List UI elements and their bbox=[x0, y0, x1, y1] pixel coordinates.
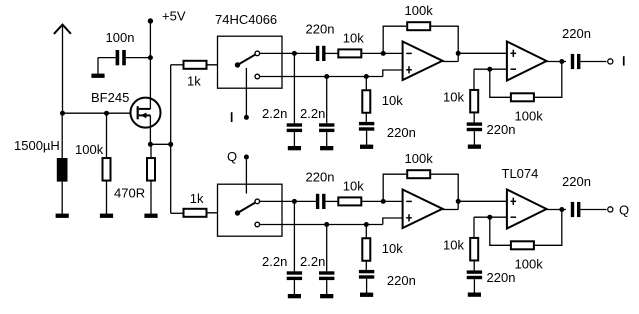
ground under second stage (Q) bbox=[468, 293, 481, 297]
wire second stage inverting input (Q) bbox=[474, 216, 507, 218]
node inverting input junction (Q) bbox=[381, 199, 386, 204]
svg-text:2.2n: 2.2n bbox=[300, 254, 325, 269]
svg-text:10k: 10k bbox=[343, 179, 364, 194]
node input bus junction bbox=[168, 142, 173, 147]
svg-text:10k: 10k bbox=[443, 90, 464, 105]
feedback resistor 100k first stage (Q) bbox=[383, 174, 406, 201]
wire first stage output (I) bbox=[443, 61, 459, 63]
wire first stage output (Q) bbox=[443, 209, 459, 211]
ground under shunt (Q) bbox=[360, 293, 373, 297]
svg-text:Q: Q bbox=[227, 149, 237, 164]
resistor R 1k (I mixer input) bbox=[184, 61, 207, 69]
wire interstage (I) bbox=[458, 52, 507, 54]
capacitor 220n under 10k (I) bbox=[467, 122, 482, 125]
resistor 470R source bbox=[150, 144, 152, 157]
svg-text:Q: Q bbox=[619, 203, 629, 218]
capacitor 220n output (I) bbox=[571, 54, 574, 69]
terminal I output bbox=[608, 59, 613, 64]
svg-text:10k: 10k bbox=[382, 93, 403, 108]
capacitor 2.2n second (I) bbox=[326, 77, 328, 124]
capacitor 2.2n first (I) bbox=[293, 53, 295, 123]
node source junction bbox=[148, 142, 153, 147]
switch box 74HC4066 (I) bbox=[218, 36, 283, 88]
svg-text:1500µH: 1500µH bbox=[14, 138, 60, 153]
analog switch (I) bbox=[235, 62, 240, 67]
switch box 74HC4066 (Q) bbox=[218, 184, 283, 236]
op-amp first stage (Q) bbox=[403, 190, 443, 229]
capacitor 220n output (Q) bbox=[571, 202, 574, 217]
op-amp second stage (I) bbox=[507, 42, 547, 81]
antenna bbox=[54, 25, 71, 34]
op-amp second stage (Q) bbox=[507, 190, 547, 229]
wire output (I) bbox=[547, 61, 567, 63]
node upper output junction (Q) bbox=[292, 199, 297, 204]
wire output (Q) bbox=[547, 209, 567, 211]
capacitor 220n shunt (Q) bbox=[359, 270, 374, 273]
control line Q bbox=[245, 157, 247, 194]
capacitor 2.2n second (Q) bbox=[326, 225, 328, 272]
svg-text:10k: 10k bbox=[343, 31, 364, 46]
svg-text:100k: 100k bbox=[75, 142, 104, 157]
node Q control bbox=[244, 155, 249, 160]
svg-text:100k: 100k bbox=[515, 109, 544, 124]
ground under second stage (I) bbox=[468, 145, 481, 149]
wire switch lower output (Q) bbox=[260, 224, 383, 226]
op-amp first stage (I) bbox=[403, 42, 443, 81]
svg-text:+5V: +5V bbox=[162, 9, 186, 24]
resistor 100k bias bbox=[106, 113, 108, 157]
supply +5V bbox=[148, 18, 153, 23]
svg-text:220n: 220n bbox=[387, 125, 416, 140]
capacitor 100n decoupling bbox=[126, 57, 151, 59]
svg-text:BF245: BF245 bbox=[91, 90, 129, 105]
node first stage output junction (I) bbox=[456, 51, 461, 56]
node output junction (Q) bbox=[559, 207, 564, 212]
node output junction (I) bbox=[559, 59, 564, 64]
resistor 10k series (I) bbox=[338, 49, 361, 57]
label I control bbox=[231, 112, 233, 122]
svg-text:10k: 10k bbox=[382, 241, 403, 256]
ground under 100n bbox=[91, 74, 104, 78]
capacitor 220n under 10k (Q) bbox=[467, 270, 482, 273]
svg-text:220n: 220n bbox=[487, 270, 516, 285]
wire switch upper output (Q) bbox=[260, 200, 295, 202]
wire input bus vertical bbox=[170, 65, 172, 214]
svg-text:470R: 470R bbox=[114, 186, 145, 201]
ground under second 2.2n (I) bbox=[320, 146, 333, 150]
feedback resistor 100k second stage (Q) bbox=[490, 217, 511, 245]
resistor 10k shunt (I) bbox=[365, 77, 367, 91]
node lower junction second (I) bbox=[364, 74, 369, 79]
capacitor 2.2n first (Q) bbox=[293, 201, 295, 271]
wire switch upper output (I) bbox=[260, 52, 295, 54]
feedback resistor 100k second stage (I) bbox=[490, 69, 511, 97]
transistor BF245 JFET bbox=[131, 98, 161, 128]
ground under inductor bbox=[56, 214, 69, 218]
ground under first 2.2n (Q) bbox=[288, 294, 301, 298]
svg-text:10k: 10k bbox=[443, 238, 464, 253]
resistor 10k to ground second stage (Q) bbox=[473, 217, 475, 238]
svg-text:2.2n: 2.2n bbox=[300, 106, 325, 121]
node drain-100n junction bbox=[148, 55, 153, 60]
svg-text:220n: 220n bbox=[562, 174, 591, 189]
resistor 10k shunt (Q) bbox=[365, 225, 367, 239]
capacitor 220n series (Q) bbox=[316, 194, 319, 209]
svg-text:1k: 1k bbox=[187, 73, 201, 88]
svg-text:2.2n: 2.2n bbox=[262, 106, 287, 121]
svg-text:TL074: TL074 bbox=[502, 166, 539, 181]
node inverting input junction (I) bbox=[381, 51, 386, 56]
svg-text:2.2n: 2.2n bbox=[262, 254, 287, 269]
resistor 10k to ground second stage (I) bbox=[473, 69, 475, 90]
node gate-100k junction bbox=[104, 111, 109, 116]
ground under 470R bbox=[144, 214, 157, 218]
svg-text:220n: 220n bbox=[387, 273, 416, 288]
feedback resistor 100k first stage (I) bbox=[383, 26, 406, 53]
node upper output junction (I) bbox=[292, 51, 297, 56]
analog switch (Q) bbox=[235, 210, 240, 215]
svg-text:100k: 100k bbox=[405, 3, 434, 18]
wire source to input bus bbox=[150, 143, 170, 145]
node lower junction first (I) bbox=[324, 74, 329, 79]
node second inverting junction (Q) bbox=[487, 215, 492, 220]
wire input bus to I mixer bbox=[171, 64, 183, 66]
inductor 1500uH bbox=[61, 113, 63, 158]
node lower junction first (Q) bbox=[324, 222, 329, 227]
node first stage output junction (Q) bbox=[456, 199, 461, 204]
wire switch lower output (I) bbox=[260, 76, 383, 78]
capacitor 220n shunt (I) bbox=[359, 122, 374, 125]
svg-text:100n: 100n bbox=[106, 30, 135, 45]
svg-text:220n: 220n bbox=[306, 169, 335, 184]
svg-text:220n: 220n bbox=[487, 122, 516, 137]
control line I bbox=[245, 68, 247, 115]
ground under shunt (I) bbox=[360, 145, 373, 149]
wire gate bbox=[63, 112, 132, 114]
svg-text:100k: 100k bbox=[515, 257, 544, 272]
terminal Q output bbox=[608, 207, 613, 212]
ground under second 2.2n (Q) bbox=[320, 294, 333, 298]
resistor 10k series (Q) bbox=[338, 197, 361, 205]
ground under 100k bbox=[100, 214, 113, 218]
svg-text:1k: 1k bbox=[190, 191, 204, 206]
label I output bbox=[623, 56, 625, 65]
svg-text:220n: 220n bbox=[562, 26, 591, 41]
node antenna-gate junction bbox=[60, 111, 65, 116]
wire input bus to Q mixer bbox=[171, 212, 183, 214]
svg-text:100k: 100k bbox=[405, 151, 434, 166]
wire second stage inverting input (I) bbox=[474, 68, 507, 70]
ground under first 2.2n (I) bbox=[288, 146, 301, 150]
capacitor 220n series (I) bbox=[316, 46, 319, 61]
node second inverting junction (I) bbox=[487, 67, 492, 72]
node I control bbox=[244, 115, 249, 120]
svg-text:74HC4066: 74HC4066 bbox=[215, 12, 277, 27]
wire interstage (Q) bbox=[458, 200, 507, 202]
resistor R 1k (Q mixer input) bbox=[184, 209, 207, 217]
svg-text:220n: 220n bbox=[306, 21, 335, 36]
node lower junction second (Q) bbox=[364, 222, 369, 227]
